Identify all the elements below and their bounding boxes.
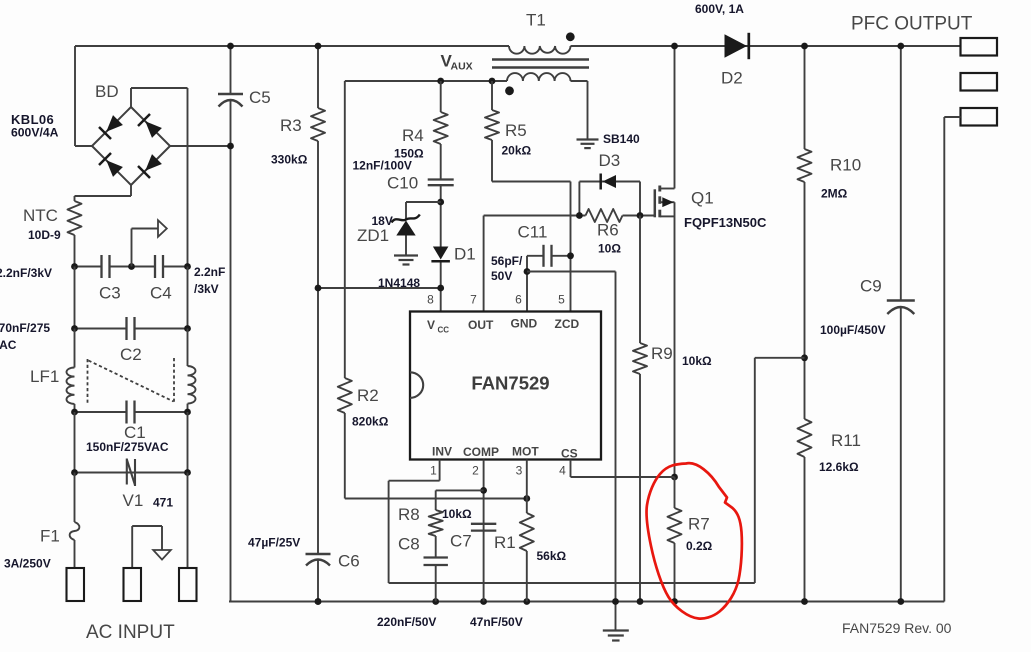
svg-text:AUX: AUX: [451, 61, 473, 73]
svg-text:5: 5: [558, 293, 565, 307]
svg-text:10Ω: 10Ω: [598, 242, 621, 256]
svg-text:R6: R6: [597, 221, 619, 240]
svg-text:C4: C4: [150, 284, 172, 303]
svg-text:R11: R11: [831, 431, 861, 450]
svg-text:ZCD: ZCD: [555, 317, 580, 331]
svg-text:600V, 1A: 600V, 1A: [695, 2, 744, 16]
svg-text:R1: R1: [494, 533, 516, 552]
svg-text:150nF/275VAC: 150nF/275VAC: [86, 440, 169, 454]
svg-text:R10: R10: [830, 156, 861, 175]
svg-text:1N4148: 1N4148: [378, 276, 420, 290]
svg-text:MOT: MOT: [512, 445, 539, 459]
svg-text:10D-9: 10D-9: [28, 228, 61, 242]
svg-text:10kΩ: 10kΩ: [442, 507, 472, 521]
svg-text:1: 1: [430, 464, 437, 478]
svg-text:220nF/50V: 220nF/50V: [377, 615, 436, 629]
svg-text:47µF/25V: 47µF/25V: [248, 536, 300, 550]
svg-text:C9: C9: [860, 277, 882, 296]
svg-text:820kΩ: 820kΩ: [352, 415, 389, 429]
svg-text:FAN7529: FAN7529: [471, 373, 549, 394]
svg-text:C6: C6: [338, 552, 360, 571]
svg-text:R3: R3: [280, 116, 302, 135]
svg-text:CC: CC: [438, 326, 450, 335]
svg-text:10kΩ: 10kΩ: [682, 354, 712, 368]
svg-text:3A/250V: 3A/250V: [4, 557, 51, 571]
svg-text:PFC OUTPUT: PFC OUTPUT: [851, 14, 973, 35]
svg-text:56kΩ: 56kΩ: [537, 549, 567, 563]
svg-text:3: 3: [516, 464, 523, 478]
svg-text:47nF/50V: 47nF/50V: [470, 615, 523, 629]
svg-text:SB140: SB140: [603, 132, 640, 146]
svg-text:Q1: Q1: [691, 189, 714, 208]
svg-text:6: 6: [515, 293, 522, 307]
svg-text:7: 7: [470, 293, 477, 307]
svg-text:12.6kΩ: 12.6kΩ: [819, 460, 859, 474]
svg-text:50V: 50V: [491, 269, 512, 283]
svg-text:OUT: OUT: [468, 318, 494, 332]
svg-text:T1: T1: [526, 11, 546, 30]
svg-text:12nF/100V: 12nF/100V: [353, 159, 412, 173]
svg-text:F1: F1: [40, 527, 60, 546]
svg-text:C8: C8: [398, 535, 420, 554]
svg-text:2.2nF/3kV: 2.2nF/3kV: [0, 266, 52, 280]
svg-text:R9: R9: [651, 344, 673, 363]
svg-text:C11: C11: [518, 223, 548, 242]
svg-text:2: 2: [472, 464, 479, 478]
svg-text:GND: GND: [511, 317, 538, 331]
svg-text:V: V: [427, 318, 435, 332]
svg-text:AC INPUT: AC INPUT: [86, 622, 175, 643]
svg-text:VAC: VAC: [0, 338, 17, 352]
svg-text:471: 471: [153, 496, 173, 510]
svg-text:R5: R5: [505, 121, 527, 140]
svg-text:R2: R2: [357, 386, 379, 405]
svg-text:2MΩ: 2MΩ: [821, 187, 848, 201]
svg-text:D3: D3: [599, 151, 621, 170]
svg-text:COMP: COMP: [463, 445, 499, 459]
svg-text:INV: INV: [432, 445, 452, 459]
svg-text:18V: 18V: [372, 214, 393, 228]
svg-text:C7: C7: [450, 532, 472, 551]
svg-text:R8: R8: [398, 505, 420, 524]
svg-text:V1: V1: [123, 491, 144, 510]
svg-text:C2: C2: [120, 345, 142, 364]
svg-text:R4: R4: [402, 126, 424, 145]
svg-text:100µF/450V: 100µF/450V: [820, 323, 886, 337]
svg-text:D1: D1: [454, 245, 476, 264]
svg-text:330kΩ: 330kΩ: [271, 153, 308, 167]
svg-text:BD: BD: [95, 82, 119, 101]
svg-text:FAN7529 Rev. 00: FAN7529 Rev. 00: [842, 620, 952, 636]
svg-text:C3: C3: [99, 284, 121, 303]
svg-text:NTC: NTC: [23, 206, 58, 225]
svg-text:4: 4: [559, 464, 566, 478]
svg-text:ZD1: ZD1: [357, 226, 389, 245]
svg-text:R7: R7: [688, 515, 710, 534]
svg-text:/3kV: /3kV: [194, 282, 219, 296]
svg-text:D2: D2: [721, 69, 743, 88]
svg-text:20kΩ: 20kΩ: [502, 144, 532, 158]
svg-text:C5: C5: [249, 88, 271, 107]
svg-text:2.2nF: 2.2nF: [194, 265, 225, 279]
svg-text:600V/4A: 600V/4A: [11, 126, 59, 140]
svg-text:56pF/: 56pF/: [491, 254, 523, 268]
svg-text:LF1: LF1: [30, 367, 59, 386]
svg-text:C10: C10: [387, 174, 418, 193]
svg-text:CS: CS: [561, 447, 578, 461]
svg-text:8: 8: [427, 293, 434, 307]
svg-text:0.2Ω: 0.2Ω: [686, 539, 713, 553]
svg-text:470nF/275: 470nF/275: [0, 321, 50, 335]
svg-text:FQPF13N50C: FQPF13N50C: [684, 215, 767, 230]
